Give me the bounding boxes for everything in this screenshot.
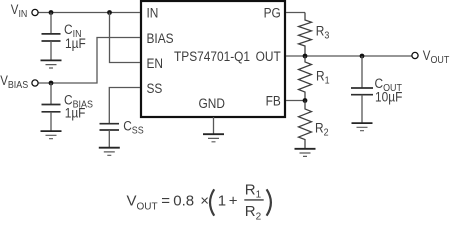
resistor R1 [299,56,312,101]
svg-text:TPS74701-Q1: TPS74701-Q1 [174,48,250,64]
IC box U1 TPS74701-Q1 [141,1,285,117]
svg-text:BIAS: BIAS [147,30,174,46]
svg-text:1µF: 1µF [65,105,86,121]
wire VIN row [38,12,140,14]
svg-text:R2: R2 [245,203,262,222]
svg-text:VIN: VIN [11,2,28,20]
svg-text:EN: EN [147,55,164,71]
ground under GND pin [203,134,224,142]
terminal VIN [32,9,38,15]
formula VOUT = 0.8 x (1 + R1/R2) [127,181,271,222]
svg-text:FB: FB [266,93,281,109]
wire COUT upper stem [361,56,363,88]
svg-text:=0.8×1+: =0.8×1+ [161,192,238,209]
terminal VBIAS [32,80,38,86]
node junction VIN-CIN [49,10,54,15]
ground under R2 [295,149,316,157]
wire FB [286,100,305,102]
svg-text:R2: R2 [315,119,329,138]
wire CIN lower stem [50,41,52,60]
wire EN drop [110,13,141,63]
svg-text:R1: R1 [316,68,330,87]
wire OUT row [286,55,412,57]
capacitor C_BIAS [42,105,61,112]
svg-text:SS: SS [147,80,163,96]
node junction OUT-COUT [360,54,365,59]
wire CBIAS lower stem [50,112,52,131]
wire CSS lower stem [108,130,110,148]
svg-text:GND: GND [199,95,225,111]
capacitor C_OUT [351,88,373,95]
terminal VOUT [412,52,418,58]
svg-text:PG: PG [264,5,281,21]
ground under CIN [41,60,62,68]
wire CBIAS upper stem [50,83,52,104]
node junction VBIAS-CBIAS [49,81,54,86]
wire COUT lower stem [361,95,363,123]
wire PG to R3 [286,12,305,14]
svg-text:IN: IN [147,5,159,21]
svg-text:10µF: 10µF [375,89,402,105]
node junction OUT-R3R1 [303,54,308,59]
svg-text:1µF: 1µF [65,35,86,51]
formula left paren [210,189,214,215]
svg-text:R3: R3 [316,22,330,41]
svg-text:VBIAS: VBIAS [0,73,28,91]
resistor R3 [299,13,312,57]
resistor R2 [299,101,312,149]
svg-text:R1: R1 [245,181,262,200]
svg-text:VOUT: VOUT [127,192,158,212]
capacitor C_SS [100,124,120,130]
ground under CSS [99,148,120,156]
formula fraction bar [244,199,263,201]
svg-text:VOUT: VOUT [423,48,450,66]
wire SS to CSS [109,88,140,124]
ground under COUT [352,123,373,131]
node junction VIN-EN [107,10,112,15]
svg-text:CSS: CSS [123,117,144,136]
node junction FB [303,98,308,103]
wire VBIAS row [38,38,140,84]
svg-text:OUT: OUT [256,48,281,64]
wire GND stem [213,117,215,134]
capacitor C_IN [42,34,61,41]
ground under CBIAS [41,131,62,139]
formula right paren [267,189,271,215]
wire CIN upper stem [50,13,52,34]
